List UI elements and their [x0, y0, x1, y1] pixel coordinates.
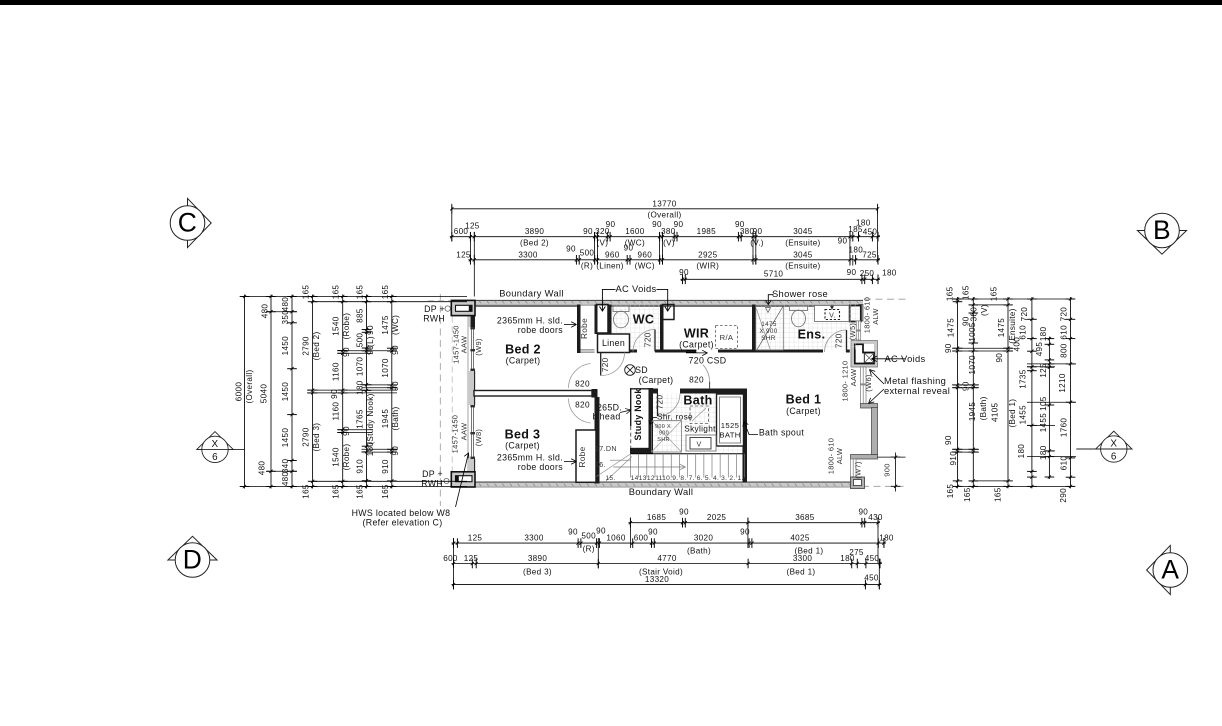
svg-text:2365mm H. sld.: 2365mm H. sld. — [497, 453, 563, 463]
svg-text:(Carpet): (Carpet) — [506, 356, 541, 366]
svg-text:16.: 16. — [595, 461, 606, 469]
svg-text:180: 180 — [1017, 444, 1026, 459]
svg-text:ALW: ALW — [871, 308, 880, 325]
svg-text:165: 165 — [302, 285, 311, 300]
svg-text:180: 180 — [882, 269, 897, 278]
svg-text:165: 165 — [356, 285, 365, 300]
svg-text:1760: 1760 — [1059, 418, 1068, 438]
svg-text:1070: 1070 — [968, 355, 977, 375]
svg-text:165: 165 — [993, 487, 1002, 502]
svg-text:90: 90 — [366, 325, 375, 335]
svg-text:V.: V. — [829, 311, 836, 319]
svg-text:(Carpet): (Carpet) — [505, 441, 540, 451]
svg-text:Skylight: Skylight — [684, 425, 716, 434]
svg-text:13: 13 — [639, 475, 647, 482]
svg-text:(Robe): (Robe) — [342, 444, 351, 471]
svg-text:(W7): (W7) — [854, 461, 863, 479]
svg-text:500: 500 — [581, 532, 596, 541]
svg-text:(Bed 3): (Bed 3) — [523, 568, 552, 577]
svg-text:165: 165 — [946, 286, 955, 301]
svg-text:Ens.: Ens. — [798, 328, 826, 342]
svg-text:1005: 1005 — [968, 322, 977, 342]
svg-text:90: 90 — [944, 435, 953, 445]
svg-text:500: 500 — [356, 333, 365, 348]
svg-text:Bath: Bath — [683, 394, 712, 408]
svg-text:7.: 7. — [689, 475, 695, 482]
svg-text:WC: WC — [633, 313, 655, 327]
svg-text:1210: 1210 — [1058, 373, 1067, 393]
svg-text:90: 90 — [995, 353, 1004, 363]
svg-text:1160: 1160 — [332, 402, 341, 421]
svg-text:(Carpet): (Carpet) — [679, 340, 714, 350]
svg-text:9.: 9. — [672, 475, 678, 482]
svg-text:A: A — [1161, 555, 1179, 585]
svg-text:6: 6 — [1111, 452, 1117, 463]
svg-text:1457-1450: 1457-1450 — [451, 415, 460, 454]
svg-text:1450: 1450 — [281, 382, 290, 402]
svg-text:RWH: RWH — [421, 479, 443, 489]
svg-text:90: 90 — [674, 220, 684, 229]
svg-text:180: 180 — [356, 380, 365, 395]
svg-text:10.: 10. — [662, 475, 672, 482]
svg-text:90: 90 — [838, 237, 848, 246]
svg-text:(V): (V) — [663, 239, 675, 248]
svg-text:(WIR): (WIR) — [696, 262, 719, 271]
svg-text:90: 90 — [583, 227, 593, 236]
svg-text:(Bed 2): (Bed 2) — [312, 331, 321, 360]
svg-text:(W8): (W8) — [474, 429, 483, 447]
svg-text:450: 450 — [865, 554, 880, 563]
svg-text:1540: 1540 — [332, 316, 341, 336]
svg-text:2.: 2. — [729, 475, 735, 482]
svg-text:6: 6 — [212, 452, 218, 463]
svg-text:R/A: R/A — [720, 333, 734, 342]
svg-text:90: 90 — [679, 508, 689, 517]
svg-text:Linen: Linen — [602, 338, 625, 348]
svg-text:robe doors: robe doors — [518, 325, 564, 335]
svg-text:DP +: DP + — [422, 469, 443, 479]
svg-text:105: 105 — [1039, 396, 1048, 411]
svg-text:(Carpet): (Carpet) — [786, 406, 821, 416]
svg-text:Study Nook: Study Nook — [633, 388, 643, 440]
svg-text:4025: 4025 — [790, 533, 810, 542]
svg-text:X 900: X 900 — [759, 328, 777, 335]
svg-text:430: 430 — [868, 513, 883, 522]
svg-text:1525: 1525 — [721, 421, 739, 430]
svg-text:(Robe): (Robe) — [342, 313, 351, 340]
svg-text:500: 500 — [580, 249, 595, 258]
svg-text:4.: 4. — [713, 475, 719, 482]
svg-text:Boundary Wall: Boundary Wall — [499, 289, 564, 299]
svg-text:1475: 1475 — [381, 315, 390, 335]
svg-text:13770: 13770 — [652, 200, 676, 209]
svg-text:900 X: 900 X — [655, 424, 671, 430]
svg-text:1475: 1475 — [946, 318, 955, 338]
svg-text:C: C — [178, 208, 197, 238]
svg-text:(WC): (WC) — [391, 315, 400, 335]
svg-text:(Carpet): (Carpet) — [639, 375, 674, 385]
svg-text:B: B — [1153, 215, 1171, 245]
svg-text:165: 165 — [302, 484, 311, 499]
svg-text:1070: 1070 — [356, 357, 365, 377]
svg-text:1455: 1455 — [1039, 413, 1048, 433]
svg-text:1685: 1685 — [647, 513, 667, 522]
svg-text:ALW: ALW — [835, 447, 844, 464]
svg-text:90: 90 — [342, 426, 351, 436]
svg-text:3890: 3890 — [528, 554, 548, 563]
svg-text:90: 90 — [391, 345, 400, 355]
svg-text:(Bath): (Bath) — [687, 547, 711, 556]
svg-text:90: 90 — [366, 345, 375, 355]
svg-text:2925: 2925 — [698, 250, 718, 259]
svg-text:720 CSD: 720 CSD — [689, 355, 727, 365]
svg-text:3890: 3890 — [525, 227, 545, 236]
svg-text:(Bath): (Bath) — [391, 406, 400, 430]
svg-text:(V.): (V.) — [750, 239, 764, 248]
svg-text:(W6): (W6) — [864, 374, 873, 392]
svg-text:1.: 1. — [737, 475, 743, 482]
svg-text:125: 125 — [465, 222, 480, 231]
svg-text:BATH: BATH — [719, 431, 740, 440]
svg-text:6.: 6. — [697, 475, 703, 482]
svg-text:90: 90 — [944, 343, 953, 353]
svg-text:90: 90 — [753, 227, 763, 236]
svg-text:Bath spout: Bath spout — [759, 428, 804, 438]
svg-text:(R): (R) — [581, 262, 593, 271]
svg-text:4105: 4105 — [991, 402, 1000, 422]
svg-text:2025: 2025 — [707, 513, 727, 522]
svg-text:(Linen): (Linen) — [596, 262, 624, 271]
svg-text:610: 610 — [1059, 456, 1068, 471]
svg-text:90: 90 — [330, 389, 339, 399]
svg-text:external reveal: external reveal — [884, 386, 950, 396]
svg-text:165: 165 — [963, 487, 972, 502]
svg-text:(Bed 1): (Bed 1) — [787, 568, 816, 577]
svg-text:3300: 3300 — [524, 533, 544, 542]
svg-text:165: 165 — [961, 285, 970, 300]
svg-text:1450: 1450 — [281, 336, 290, 356]
svg-text:X: X — [212, 439, 219, 450]
svg-text:(WC): (WC) — [635, 262, 655, 271]
svg-text:165: 165 — [356, 484, 365, 499]
svg-text:165: 165 — [332, 484, 341, 499]
svg-text:1475: 1475 — [997, 318, 1006, 338]
svg-text:600: 600 — [634, 533, 649, 542]
svg-text:3.: 3. — [721, 475, 727, 482]
svg-text:(W9): (W9) — [474, 338, 483, 356]
svg-text:AAW: AAW — [460, 335, 469, 353]
svg-text:1985: 1985 — [697, 227, 717, 236]
svg-text:720: 720 — [656, 395, 665, 410]
svg-text:165: 165 — [946, 484, 955, 499]
svg-text:Bed 3: Bed 3 — [505, 428, 541, 442]
svg-text:1765: 1765 — [356, 409, 365, 429]
svg-text:350: 350 — [281, 310, 290, 325]
svg-text:WIR: WIR — [684, 327, 709, 341]
svg-text:3020: 3020 — [694, 533, 714, 542]
svg-text:910: 910 — [381, 459, 390, 474]
svg-text:290: 290 — [1059, 488, 1068, 503]
svg-text:robe doors: robe doors — [518, 462, 564, 472]
svg-text:480: 480 — [261, 304, 270, 319]
svg-text:V: V — [696, 441, 701, 449]
svg-text:6000: 6000 — [235, 382, 244, 402]
svg-text:SHR: SHR — [657, 437, 670, 443]
svg-text:720: 720 — [1020, 307, 1029, 322]
svg-text:820: 820 — [575, 401, 590, 410]
svg-text:720: 720 — [1059, 307, 1068, 322]
svg-text:SD: SD — [635, 365, 648, 375]
svg-text:960: 960 — [638, 250, 653, 259]
svg-text:90: 90 — [679, 268, 689, 277]
svg-text:(Ensuite): (Ensuite) — [785, 262, 820, 271]
svg-text:450: 450 — [863, 228, 878, 237]
svg-text:340: 340 — [281, 458, 290, 473]
svg-text:(Ensuite): (Ensuite) — [785, 239, 820, 248]
svg-text:Metal flashing: Metal flashing — [884, 376, 946, 386]
svg-text:720: 720 — [835, 333, 844, 348]
svg-text:90: 90 — [648, 528, 658, 537]
svg-text:90: 90 — [342, 347, 351, 357]
svg-text:1475: 1475 — [761, 321, 777, 328]
svg-text:(V): (V) — [597, 239, 609, 248]
svg-text:800: 800 — [1059, 343, 1068, 358]
svg-text:RWH: RWH — [423, 314, 445, 324]
svg-text:900: 900 — [659, 431, 669, 437]
svg-text:90: 90 — [606, 220, 616, 229]
svg-text:(Bed 1): (Bed 1) — [1008, 399, 1017, 428]
svg-text:DP +: DP + — [424, 304, 445, 314]
svg-text:SHR: SHR — [761, 335, 775, 342]
svg-text:(Bed 2): (Bed 2) — [520, 239, 549, 248]
svg-text:4770: 4770 — [657, 554, 677, 563]
svg-text:AAW: AAW — [460, 422, 469, 440]
svg-text:Bed 1: Bed 1 — [786, 393, 822, 407]
svg-text:(Overall): (Overall) — [647, 211, 681, 220]
svg-text:90: 90 — [596, 527, 606, 536]
svg-text:90: 90 — [847, 268, 857, 277]
svg-text:275: 275 — [849, 548, 864, 557]
svg-text:(R): (R) — [583, 545, 595, 554]
svg-text:90: 90 — [391, 446, 400, 456]
svg-text:725: 725 — [862, 251, 877, 260]
svg-text:12: 12 — [647, 475, 655, 482]
svg-text:250: 250 — [860, 269, 875, 278]
svg-text:820: 820 — [575, 380, 590, 389]
svg-text:(Bed 3): (Bed 3) — [312, 423, 321, 452]
svg-text:960: 960 — [605, 250, 620, 259]
svg-text:90: 90 — [858, 508, 868, 517]
svg-text:2790: 2790 — [302, 336, 311, 356]
svg-text:1450: 1450 — [281, 428, 290, 448]
svg-text:Boundary Wall: Boundary Wall — [629, 487, 694, 497]
svg-text:15.: 15. — [605, 475, 615, 482]
svg-text:(Bath): (Bath) — [979, 396, 988, 420]
svg-text:Robe: Robe — [578, 446, 587, 467]
svg-text:480: 480 — [258, 461, 267, 476]
svg-text:3045: 3045 — [793, 227, 813, 236]
svg-text:610: 610 — [1059, 325, 1068, 340]
svg-text:1945: 1945 — [968, 402, 977, 422]
svg-text:90: 90 — [566, 245, 576, 254]
svg-text:90: 90 — [962, 381, 971, 391]
svg-text:910: 910 — [949, 451, 958, 466]
svg-text:3685: 3685 — [795, 513, 815, 522]
svg-text:3045: 3045 — [793, 250, 813, 259]
svg-text:Bed 2: Bed 2 — [505, 343, 541, 357]
svg-text:(Study Nook): (Study Nook) — [366, 393, 375, 444]
svg-text:b'head: b'head — [592, 412, 620, 422]
svg-text:90: 90 — [624, 244, 634, 253]
svg-text:Robe: Robe — [580, 318, 589, 339]
svg-text:495: 495 — [1035, 342, 1044, 357]
svg-text:1455: 1455 — [1019, 405, 1028, 425]
svg-text:165: 165 — [381, 484, 390, 499]
svg-text:180: 180 — [849, 246, 864, 255]
svg-text:3300: 3300 — [793, 554, 813, 563]
svg-text:165: 165 — [381, 285, 390, 300]
svg-text:90: 90 — [391, 381, 400, 391]
svg-text:2365mm H. sld.: 2365mm H. sld. — [497, 316, 563, 326]
svg-text:2790: 2790 — [302, 427, 311, 447]
svg-text:1070: 1070 — [381, 358, 390, 378]
svg-text:180: 180 — [1039, 445, 1048, 460]
svg-text:885: 885 — [356, 308, 365, 323]
svg-text:(Overall): (Overall) — [245, 369, 254, 403]
svg-text:1160: 1160 — [332, 362, 341, 381]
svg-text:125: 125 — [464, 554, 479, 563]
svg-text:AAW: AAW — [849, 368, 858, 386]
svg-text:125: 125 — [1039, 363, 1048, 378]
svg-text:180: 180 — [856, 219, 871, 228]
svg-text:Shr. rose: Shr. rose — [657, 413, 693, 422]
svg-text:(Refer elevation C): (Refer elevation C) — [363, 518, 443, 528]
svg-text:14: 14 — [631, 475, 639, 482]
svg-text:Shower rose: Shower rose — [772, 289, 828, 299]
svg-text:17.DN: 17.DN — [595, 445, 617, 453]
svg-text:165: 165 — [332, 285, 341, 300]
svg-text:3300: 3300 — [518, 250, 538, 259]
svg-text:900: 900 — [883, 463, 892, 476]
svg-text:910: 910 — [356, 459, 365, 474]
svg-text:(W5): (W5) — [848, 323, 857, 341]
svg-text:5710: 5710 — [764, 270, 784, 279]
svg-text:90: 90 — [740, 528, 750, 537]
svg-text:480: 480 — [281, 471, 290, 486]
svg-text:1060: 1060 — [606, 533, 626, 542]
svg-text:480: 480 — [281, 297, 290, 312]
svg-text:180: 180 — [1039, 326, 1048, 341]
svg-text:HWS located below W8: HWS located below W8 — [352, 508, 451, 518]
svg-text:165: 165 — [989, 286, 998, 301]
svg-text:610: 610 — [1019, 325, 1028, 340]
svg-text:90: 90 — [568, 528, 578, 537]
svg-text:8.: 8. — [680, 475, 686, 482]
svg-text:380: 380 — [970, 307, 979, 322]
svg-text:AC Voids: AC Voids — [616, 284, 657, 294]
svg-text:1540: 1540 — [332, 447, 341, 467]
svg-text:820: 820 — [689, 376, 704, 385]
svg-text:125: 125 — [456, 250, 471, 259]
svg-text:180: 180 — [879, 533, 894, 542]
svg-text:13320: 13320 — [645, 575, 669, 584]
svg-text:1735: 1735 — [1019, 369, 1028, 389]
svg-text:1600: 1600 — [625, 227, 645, 236]
svg-text:1945: 1945 — [381, 409, 390, 429]
svg-text:5040: 5040 — [260, 384, 269, 404]
svg-text:720: 720 — [644, 332, 653, 347]
svg-text:D: D — [183, 545, 202, 575]
svg-text:(V): (V) — [980, 304, 989, 316]
svg-text:600: 600 — [443, 554, 458, 563]
svg-text:5.: 5. — [705, 475, 711, 482]
svg-text:X: X — [1110, 439, 1117, 450]
svg-text:720: 720 — [601, 357, 610, 372]
svg-text:450: 450 — [864, 574, 879, 583]
svg-text:180: 180 — [366, 442, 375, 457]
svg-text:125: 125 — [468, 533, 483, 542]
